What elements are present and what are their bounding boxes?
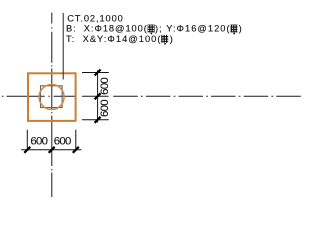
- svg-text:CT.02,1000: CT.02,1000: [67, 13, 123, 23]
- svg-text:600: 600: [54, 136, 72, 148]
- svg-text:600: 600: [99, 77, 111, 95]
- svg-text:B: X:Φ18@100(: B: X:Φ18@100(: [66, 24, 148, 34]
- svg-text:T: X&Y:Φ14@100(: T: X&Y:Φ14@100(: [66, 34, 161, 44]
- svg-text:): ): [239, 24, 242, 34]
- svg-text:600: 600: [99, 99, 111, 117]
- svg-text:); Y:Φ16@120(: ); Y:Φ16@120(: [155, 24, 230, 34]
- svg-text:600: 600: [30, 136, 48, 148]
- svg-text:): ): [170, 34, 173, 44]
